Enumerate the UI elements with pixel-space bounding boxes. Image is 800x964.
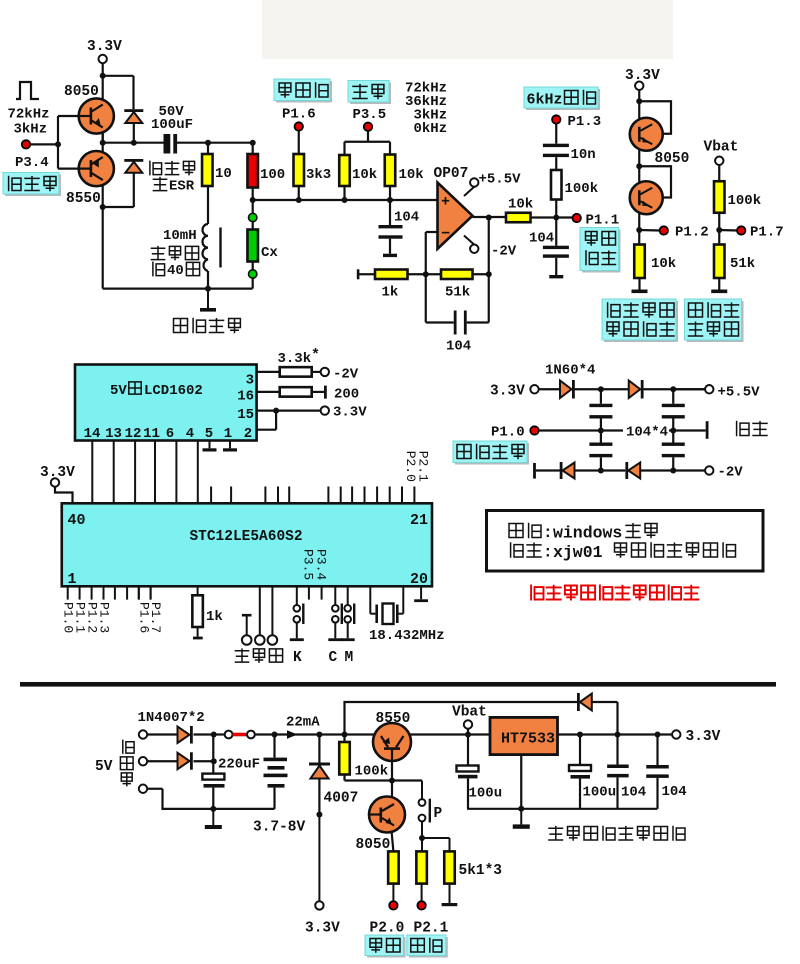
svg-text:P2.1: P2.1 [414,921,449,937]
svg-text:220uF: 220uF [218,757,260,773]
svg-text:OP07: OP07 [434,166,469,182]
svg-text:+5.5V: +5.5V [718,385,761,401]
svg-text:C: C [329,650,338,666]
svg-text:100k: 100k [728,193,762,209]
svg-text:12: 12 [125,426,142,442]
svg-text:P3.5: P3.5 [301,549,316,580]
svg-text:Vbat: Vbat [452,705,487,721]
svg-text:1k: 1k [206,609,223,625]
svg-text:10: 10 [215,166,232,182]
svg-text::: : [543,524,553,542]
svg-text:HT7533: HT7533 [501,731,555,748]
svg-text:P3.4: P3.4 [15,155,49,171]
svg-text:3kHz: 3kHz [14,122,48,138]
svg-text:P1.0: P1.0 [491,425,525,441]
svg-text:P2.0: P2.0 [370,921,405,937]
svg-text:3: 3 [246,373,254,389]
svg-text:P1.2: P1.2 [675,225,709,241]
svg-text:3.3V: 3.3V [333,405,367,421]
svg-text:+: + [441,194,450,211]
svg-text:51k: 51k [730,256,755,272]
svg-text:104: 104 [394,210,419,226]
svg-text:1: 1 [224,426,232,442]
svg-text:104: 104 [446,339,471,355]
svg-text:P1.7: P1.7 [148,602,163,633]
svg-text:40: 40 [167,263,184,279]
svg-text:72kHz: 72kHz [8,107,50,123]
svg-text:-2V: -2V [491,244,517,260]
svg-text:51k: 51k [445,285,470,301]
svg-text:3.3V: 3.3V [87,39,122,55]
svg-text:3.3V: 3.3V [686,729,721,745]
svg-text:P1.7: P1.7 [750,225,784,241]
svg-text:LCD1602: LCD1602 [144,383,203,399]
svg-text:1N60*4: 1N60*4 [545,363,595,379]
svg-text:100u: 100u [583,785,617,801]
svg-text:10k: 10k [399,167,424,183]
svg-text:40: 40 [68,512,86,529]
svg-text:3k3: 3k3 [306,167,331,183]
svg-text:15: 15 [237,407,254,423]
svg-text:8050: 8050 [655,151,690,167]
svg-text:6: 6 [166,426,174,442]
svg-text:P2.1: P2.1 [416,451,431,482]
svg-text:xjw01: xjw01 [553,543,603,562]
svg-text:1N4007*2: 1N4007*2 [138,710,205,726]
svg-text:3.7-8V: 3.7-8V [253,820,306,836]
svg-text:100k: 100k [565,181,599,197]
svg-text:P3.5: P3.5 [353,107,387,123]
svg-text:3.3k: 3.3k [278,351,312,367]
svg-text:10k: 10k [651,256,676,272]
svg-text:4007: 4007 [324,791,359,807]
svg-text:−: − [441,226,450,243]
svg-text:22mA: 22mA [286,715,320,731]
svg-text:104: 104 [529,231,554,247]
svg-text:100uF: 100uF [151,117,193,133]
svg-text:-2V: -2V [333,367,359,383]
svg-text:5k1*3: 5k1*3 [459,863,503,879]
svg-text:21: 21 [410,512,428,529]
svg-text:3.3V: 3.3V [490,384,525,400]
svg-text:P1.3: P1.3 [96,602,111,633]
svg-text:10k: 10k [352,167,377,183]
svg-text:P3.4: P3.4 [314,549,329,580]
svg-text:20: 20 [410,571,428,588]
svg-text:P: P [434,806,443,822]
svg-text:3.3V: 3.3V [625,68,660,84]
svg-text:Vbat: Vbat [704,140,739,156]
svg-text:3.3V: 3.3V [305,921,340,937]
svg-text:13: 13 [105,426,122,442]
svg-text:8050: 8050 [356,837,391,853]
svg-text::: : [543,544,553,562]
svg-text:1k: 1k [382,285,399,301]
svg-text:100: 100 [260,167,285,183]
svg-text:5: 5 [205,426,213,442]
svg-text:104: 104 [662,784,687,800]
svg-text:1: 1 [68,571,77,588]
svg-text:K: K [293,650,302,666]
svg-text:P1.1: P1.1 [586,213,620,229]
svg-text:P1.6: P1.6 [282,107,316,123]
svg-text:10k: 10k [508,197,533,213]
svg-text:0kHz: 0kHz [414,121,448,137]
svg-text:5V: 5V [110,383,127,399]
svg-text:100k: 100k [355,764,389,780]
svg-text:M: M [345,650,354,666]
svg-text:18.432MHz: 18.432MHz [369,628,445,644]
svg-text:P1.3: P1.3 [568,114,602,130]
svg-text:200: 200 [334,387,359,403]
svg-text:11: 11 [143,426,160,442]
svg-text:100u: 100u [469,786,503,802]
svg-text:ESR: ESR [169,179,195,195]
svg-text:6kHz: 6kHz [527,92,563,109]
svg-text:104: 104 [621,785,646,801]
svg-text:windows: windows [553,524,622,543]
svg-text:-2V: -2V [718,465,744,481]
svg-text:10mH: 10mH [163,228,197,244]
svg-text:4: 4 [186,426,194,442]
svg-text:+5.5V: +5.5V [479,172,522,188]
svg-text:10n: 10n [571,147,596,163]
svg-text:2: 2 [244,426,252,442]
svg-text:5V: 5V [95,759,113,775]
svg-text:8550: 8550 [66,191,101,207]
svg-text:104*4: 104*4 [626,425,668,441]
svg-text:*: * [311,347,320,364]
svg-text:Cx: Cx [261,245,278,261]
svg-text:14: 14 [84,426,101,442]
svg-text:STC12LE5A60S2: STC12LE5A60S2 [189,529,302,545]
svg-text:16: 16 [237,389,254,405]
